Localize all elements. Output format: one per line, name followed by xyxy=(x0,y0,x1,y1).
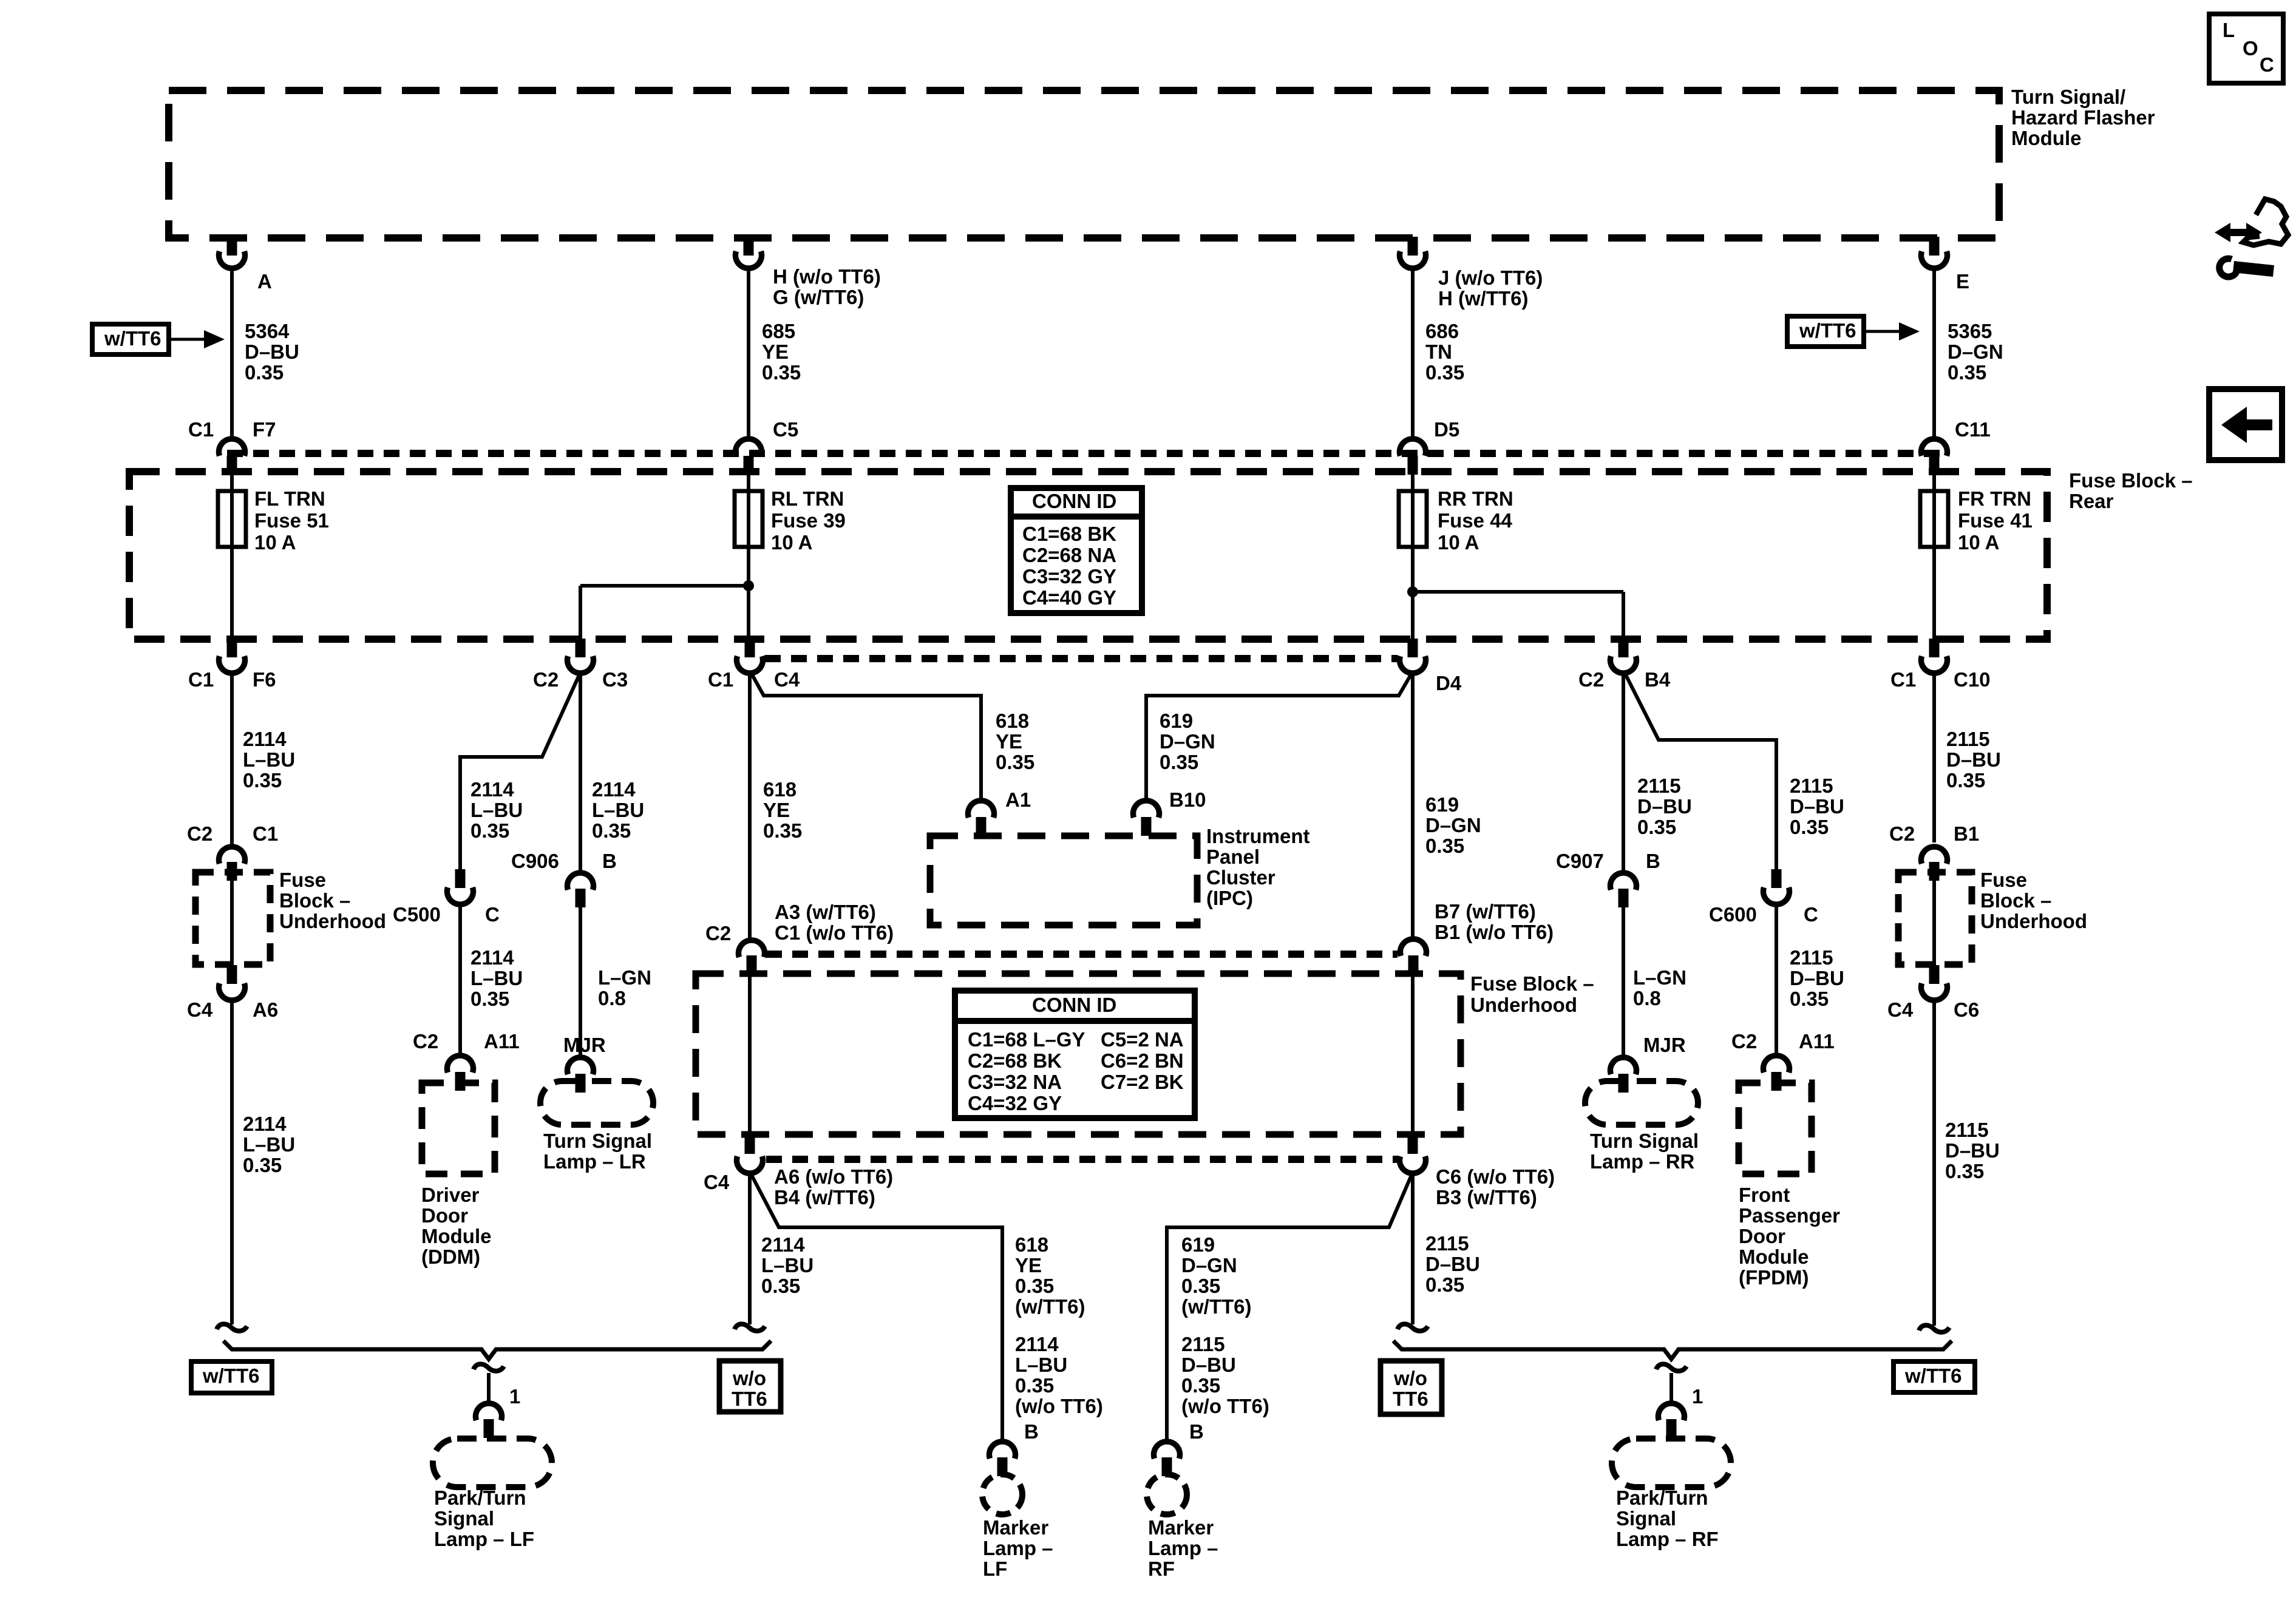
svg-text:Fuse Block –: Fuse Block – xyxy=(2069,469,2193,492)
fuse block rear box xyxy=(129,469,2193,639)
svg-text:FR TRN: FR TRN xyxy=(1958,487,2031,510)
svg-text:D–BU: D–BU xyxy=(1181,1354,1236,1376)
connector C2/A11 into DDM xyxy=(413,1030,520,1091)
svg-text:2114: 2114 xyxy=(243,1113,287,1135)
svg-text:L–BU: L–BU xyxy=(243,1133,295,1156)
svg-text:C4: C4 xyxy=(774,668,800,691)
svg-text:C1: C1 xyxy=(1890,668,1916,691)
svg-text:D–GN: D–GN xyxy=(1181,1254,1237,1276)
hand-with-wrench icon xyxy=(2215,199,2288,277)
svg-text:(w/TT6): (w/TT6) xyxy=(1181,1295,1251,1318)
svg-text:0.35: 0.35 xyxy=(1946,769,1985,792)
svg-text:1: 1 xyxy=(1692,1385,1703,1408)
svg-text:A3 (w/TT6): A3 (w/TT6) xyxy=(775,901,876,923)
svg-text:0.35: 0.35 xyxy=(1945,1160,1984,1182)
svg-text:F6: F6 xyxy=(253,668,276,691)
svg-text:C6 (w/o TT6): C6 (w/o TT6) xyxy=(1436,1165,1555,1188)
connector C1/C4 out of fuse block rear xyxy=(708,639,800,691)
svg-text:0.35: 0.35 xyxy=(1425,835,1464,857)
svg-text:619: 619 xyxy=(1181,1233,1215,1256)
svg-text:0.35: 0.35 xyxy=(1637,816,1676,838)
svg-text:L–BU: L–BU xyxy=(470,967,523,989)
svg-text:B: B xyxy=(1646,850,1660,872)
svg-text:C2: C2 xyxy=(1731,1030,1757,1053)
svg-text:A6 (w/o TT6): A6 (w/o TT6) xyxy=(774,1165,893,1188)
connector C4/C6 out of right underhood block xyxy=(1887,965,1979,1021)
svg-text:C3=32 GY: C3=32 GY xyxy=(1022,565,1116,588)
svg-text:w/TT6: w/TT6 xyxy=(1904,1364,1962,1387)
connector 1 into park/turn lamp LF xyxy=(476,1403,502,1438)
svg-text:L–BU: L–BU xyxy=(470,799,523,821)
svg-text:2114: 2114 xyxy=(470,946,514,969)
svg-text:D4: D4 xyxy=(1436,672,1462,694)
svg-text:C907: C907 xyxy=(1556,850,1604,872)
connector B into marker lamp RF xyxy=(1154,1420,1204,1476)
svg-text:D–BU: D–BU xyxy=(1946,748,2001,771)
w/TT6 arrow callout (right) xyxy=(1787,316,1920,347)
svg-text:C11: C11 xyxy=(1955,418,1991,441)
splice lead to park/turn lamp RF xyxy=(1656,1364,1703,1408)
wire through left underhood block xyxy=(230,873,234,966)
svg-text:2114: 2114 xyxy=(470,778,514,801)
wire 685 from pin H/G xyxy=(749,269,801,440)
svg-text:C: C xyxy=(485,903,500,926)
wire 2115 from C600 to FPDM xyxy=(1776,906,1844,1056)
svg-text:B: B xyxy=(1024,1420,1039,1443)
connector C2/C1 into fuse block underhood left xyxy=(187,822,278,881)
svg-text:C3: C3 xyxy=(602,668,628,691)
svg-text:2114: 2114 xyxy=(1015,1333,1059,1355)
svg-text:(w/o TT6): (w/o TT6) xyxy=(1181,1395,1269,1417)
wire 2115 D4 column lower xyxy=(1413,1175,1480,1324)
svg-text:0.35: 0.35 xyxy=(1181,1374,1220,1397)
CONN ID table (fuse block underhood) xyxy=(955,991,1195,1118)
connector MJR into turn signal lamp LR xyxy=(563,1034,606,1093)
svg-text:B3 (w/TT6): B3 (w/TT6) xyxy=(1436,1186,1537,1209)
svg-text:Marker: Marker xyxy=(1148,1516,1214,1539)
wire 619 on D4 leg xyxy=(1413,674,1481,940)
connector C2/C3 out of fuse block rear xyxy=(533,639,628,691)
wire 618 on RL leg xyxy=(750,674,802,941)
svg-text:2114: 2114 xyxy=(761,1233,805,1256)
fuse RR TRN Fuse 44 10 A xyxy=(1399,472,1513,639)
wire L-GN 0.8 to turn signal lamp RR xyxy=(1623,907,1686,1057)
svg-text:(IPC): (IPC) xyxy=(1206,887,1253,909)
svg-text:Cluster: Cluster xyxy=(1206,866,1275,889)
junction on RL TRN output xyxy=(580,580,754,591)
svg-text:Fuse 51: Fuse 51 xyxy=(254,509,329,532)
svg-text:0.35: 0.35 xyxy=(243,769,282,792)
svg-text:0.35: 0.35 xyxy=(1425,1273,1464,1296)
wire 2114 left column (F6 to underhood) xyxy=(232,674,295,847)
driver door module box xyxy=(421,1083,495,1268)
svg-text:Fuse 39: Fuse 39 xyxy=(771,509,846,532)
connector MJR into turn signal lamp RR xyxy=(1611,1034,1686,1093)
svg-text:C4=32 GY: C4=32 GY xyxy=(968,1092,1062,1114)
svg-text:B: B xyxy=(602,850,617,872)
svg-text:Module: Module xyxy=(2011,127,2081,149)
svg-text:C500: C500 xyxy=(393,903,441,926)
svg-text:B10: B10 xyxy=(1169,788,1206,811)
svg-text:10 A: 10 A xyxy=(1958,531,1999,554)
turn signal lamp LR xyxy=(540,1081,653,1173)
svg-text:Door: Door xyxy=(1739,1225,1785,1247)
svg-text:685: 685 xyxy=(762,320,795,342)
connector D5 into fuse block rear xyxy=(1400,418,1460,475)
svg-text:2115: 2115 xyxy=(1181,1333,1225,1355)
dotted IPC harness line xyxy=(765,655,1398,662)
svg-text:Marker: Marker xyxy=(983,1516,1048,1539)
svg-text:0.35: 0.35 xyxy=(245,361,284,384)
svg-text:C600: C600 xyxy=(1709,903,1757,926)
svg-text:TN: TN xyxy=(1425,341,1452,363)
splice end of center-left wire xyxy=(735,1324,765,1331)
wire from junction to C2/B4 connector xyxy=(1622,592,1625,639)
svg-text:C2: C2 xyxy=(413,1030,438,1053)
svg-text:YE: YE xyxy=(763,799,790,821)
svg-text:C4: C4 xyxy=(1887,998,1914,1021)
svg-text:C3=32 NA: C3=32 NA xyxy=(968,1071,1062,1093)
connector B7/B1 into fuse block underhood xyxy=(1401,900,1554,974)
svg-text:Lamp –: Lamp – xyxy=(1148,1537,1218,1559)
svg-text:D–GN: D–GN xyxy=(1160,730,1215,753)
fuse block underhood box (right) xyxy=(1898,869,2087,964)
svg-text:w/TT6: w/TT6 xyxy=(104,327,161,350)
svg-text:L–BU: L–BU xyxy=(243,748,295,771)
svg-text:0.35: 0.35 xyxy=(996,751,1034,773)
fuse FR TRN Fuse 41 10 A xyxy=(1920,472,2033,639)
connector B into marker lamp LF xyxy=(990,1420,1039,1476)
connector A1 into IPC xyxy=(968,788,1031,836)
svg-text:C1=68 L–GY: C1=68 L–GY xyxy=(968,1028,1085,1051)
wire 2115 on C2/B4 leg to C907 xyxy=(1623,674,1692,874)
svg-text:A11: A11 xyxy=(1799,1030,1835,1053)
connector C2/B1 into fuse block underhood right xyxy=(1889,822,1979,881)
svg-text:H (w/o TT6): H (w/o TT6) xyxy=(773,265,881,288)
svg-text:Park/Turn: Park/Turn xyxy=(1616,1486,1708,1509)
svg-text:(w/o TT6): (w/o TT6) xyxy=(1015,1395,1103,1417)
svg-text:(DDM): (DDM) xyxy=(421,1246,480,1268)
svg-text:C1 (w/o TT6): C1 (w/o TT6) xyxy=(775,921,894,944)
connector D4 out of fuse block rear xyxy=(1400,639,1462,694)
fuse RL TRN Fuse 39 10 A xyxy=(735,472,846,639)
connector C11 into fuse block rear xyxy=(1921,418,1991,475)
svg-text:0.8: 0.8 xyxy=(598,987,626,1009)
svg-text:RF: RF xyxy=(1148,1558,1175,1580)
svg-text:2115: 2115 xyxy=(1945,1119,1989,1141)
svg-text:CONN ID: CONN ID xyxy=(1032,490,1116,512)
svg-text:w/TT6: w/TT6 xyxy=(1799,319,1856,342)
park/turn signal lamp RF xyxy=(1612,1439,1731,1550)
svg-text:C5=2 NA: C5=2 NA xyxy=(1101,1028,1184,1051)
svg-text:619: 619 xyxy=(1160,710,1193,732)
svg-text:Turn Signal: Turn Signal xyxy=(1590,1130,1699,1152)
svg-text:D–GN: D–GN xyxy=(1425,814,1481,836)
connector C5 into fuse block rear xyxy=(736,418,799,475)
w/TT6 arrow callout (left) xyxy=(92,324,225,354)
svg-text:B1 (w/o TT6): B1 (w/o TT6) xyxy=(1435,921,1554,943)
svg-text:Underhood: Underhood xyxy=(1980,910,2087,932)
svg-text:E: E xyxy=(1956,270,1969,293)
svg-text:10 A: 10 A xyxy=(771,531,812,554)
svg-text:Panel: Panel xyxy=(1206,846,1260,868)
svg-text:0.35: 0.35 xyxy=(763,819,802,842)
dotted underhood harness line (lower) xyxy=(766,1156,1398,1163)
in-line connector C500/C xyxy=(393,869,500,926)
connector C1/F7 into fuse block rear xyxy=(188,418,276,475)
wire 686 from pin J/H xyxy=(1413,269,1464,440)
svg-text:0.35: 0.35 xyxy=(243,1154,282,1176)
svg-text:Fuse 44: Fuse 44 xyxy=(1438,509,1513,532)
svg-text:Lamp – RF: Lamp – RF xyxy=(1616,1528,1719,1550)
w/TT6 tag (left) xyxy=(191,1361,272,1393)
svg-text:H (w/TT6): H (w/TT6) xyxy=(1438,287,1528,310)
wire branch C2/B4 to C600 xyxy=(1625,674,1844,869)
svg-text:Turn Signal/: Turn Signal/ xyxy=(2011,86,2125,108)
svg-text:C1: C1 xyxy=(708,668,733,691)
svg-text:Passenger: Passenger xyxy=(1739,1204,1840,1227)
svg-text:YE: YE xyxy=(762,341,789,363)
svg-text:C906: C906 xyxy=(511,850,559,872)
CONN ID table (fuse block rear) xyxy=(1011,488,1142,613)
svg-text:D–BU: D–BU xyxy=(1637,795,1692,818)
svg-text:C4: C4 xyxy=(187,998,213,1021)
svg-text:(w/TT6): (w/TT6) xyxy=(1015,1295,1085,1318)
svg-text:D–BU: D–BU xyxy=(245,341,299,363)
svg-text:Fuse: Fuse xyxy=(1980,869,2027,891)
svg-text:(FPDM): (FPDM) xyxy=(1739,1266,1809,1289)
svg-text:5364: 5364 xyxy=(245,320,290,342)
svg-text:D5: D5 xyxy=(1434,418,1459,441)
svg-text:C7=2 BK: C7=2 BK xyxy=(1101,1071,1184,1093)
wire through right underhood block xyxy=(1932,873,1936,966)
fuse block underhood box (center) xyxy=(696,972,1594,1134)
svg-text:C: C xyxy=(2260,53,2274,76)
svg-text:C2=68 BK: C2=68 BK xyxy=(968,1049,1062,1072)
svg-text:D–BU: D–BU xyxy=(1790,967,1844,989)
front passenger door module box xyxy=(1739,1083,1840,1289)
svg-text:0.35: 0.35 xyxy=(761,1275,800,1297)
svg-text:0.35: 0.35 xyxy=(1790,816,1829,838)
svg-text:D–BU: D–BU xyxy=(1425,1253,1480,1275)
svg-text:Lamp –: Lamp – xyxy=(983,1537,1053,1559)
svg-text:B4: B4 xyxy=(1645,668,1671,691)
svg-text:618: 618 xyxy=(996,710,1029,732)
connector C6/B3 out of fuse block underhood xyxy=(1400,1135,1555,1209)
svg-text:D–BU: D–BU xyxy=(1945,1139,2000,1162)
svg-text:Underhood: Underhood xyxy=(1470,994,1577,1016)
pin A of flasher module xyxy=(219,237,272,293)
svg-text:A: A xyxy=(257,270,272,293)
wire 2114 center column lower + branch to marker lamp LF xyxy=(750,1175,813,1324)
splice end of center-right wire xyxy=(1398,1324,1428,1331)
svg-text:Module: Module xyxy=(1739,1246,1809,1268)
svg-text:L–GN: L–GN xyxy=(1633,966,1686,989)
svg-text:Park/Turn: Park/Turn xyxy=(434,1486,526,1509)
svg-text:MJR: MJR xyxy=(1643,1034,1686,1056)
connector C1/C10 out of fuse block rear xyxy=(1890,639,1991,691)
svg-text:L–BU: L–BU xyxy=(761,1254,813,1276)
in-line connector C600/C xyxy=(1709,869,1818,926)
svg-text:C: C xyxy=(1804,903,1818,926)
svg-text:Fuse Block –: Fuse Block – xyxy=(1470,972,1594,995)
svg-text:2114: 2114 xyxy=(592,778,636,801)
option brace (right) xyxy=(1393,1341,1952,1359)
svg-text:0.35: 0.35 xyxy=(1790,988,1829,1010)
wire 2115 right column (C10 to underhood right) xyxy=(1934,674,2001,842)
turn signal / hazard flasher module box xyxy=(169,86,2155,238)
svg-text:Lamp – LF: Lamp – LF xyxy=(434,1528,534,1550)
wire 2114 on C3 leg to C906 xyxy=(580,674,644,874)
turn signal lamp RR xyxy=(1585,1081,1699,1173)
connector C4 (A6/B4) out of fuse block underhood xyxy=(704,1135,893,1209)
svg-text:L–GN: L–GN xyxy=(598,966,651,989)
instrument panel cluster box xyxy=(930,825,1310,925)
svg-text:C2: C2 xyxy=(1889,822,1915,845)
svg-text:0.35: 0.35 xyxy=(470,819,509,842)
svg-text:O: O xyxy=(2243,37,2258,59)
svg-text:C5: C5 xyxy=(773,418,798,441)
svg-text:Door: Door xyxy=(421,1204,468,1227)
svg-text:Block –: Block – xyxy=(1980,889,2051,912)
connector C2/B4 out of fuse block rear xyxy=(1578,639,1671,691)
w/o TT6 tag (left center) xyxy=(719,1361,781,1412)
in-line connector C906/B xyxy=(511,850,617,907)
svg-text:686: 686 xyxy=(1425,320,1459,342)
svg-text:Instrument: Instrument xyxy=(1206,825,1310,847)
svg-text:C4: C4 xyxy=(704,1171,730,1193)
svg-text:C2: C2 xyxy=(533,668,559,691)
wire 5365 from pin E xyxy=(1934,269,2003,440)
wire branch C4 to IPC A1 xyxy=(752,674,1034,801)
svg-text:FL TRN: FL TRN xyxy=(254,487,325,510)
wire 2115 right column lower xyxy=(1934,1002,2000,1326)
wire branch C3 to C500 xyxy=(460,674,580,869)
arrow legend box xyxy=(2209,389,2282,460)
svg-text:A1: A1 xyxy=(1005,788,1031,811)
wire branch to marker lamp LF xyxy=(752,1175,1103,1442)
svg-text:Lamp – LR: Lamp – LR xyxy=(543,1150,646,1173)
option brace (left) xyxy=(223,1341,771,1359)
dotted harness line above fuse block rear xyxy=(227,450,1946,457)
svg-text:Signal: Signal xyxy=(1616,1507,1676,1530)
w/o TT6 tag (right center) xyxy=(1381,1361,1442,1414)
svg-text:A6: A6 xyxy=(253,998,278,1021)
svg-text:MJR: MJR xyxy=(563,1034,606,1056)
svg-text:L–BU: L–BU xyxy=(1015,1354,1067,1376)
svg-text:10 A: 10 A xyxy=(254,531,296,554)
wire branch to marker lamp RF xyxy=(1167,1175,1411,1442)
marker lamp LF xyxy=(982,1474,1053,1580)
svg-text:C6: C6 xyxy=(1954,998,1979,1021)
wire through underhood block (D4 leg) xyxy=(1411,974,1415,1135)
svg-text:J (w/o TT6): J (w/o TT6) xyxy=(1438,266,1543,289)
svg-text:0.35: 0.35 xyxy=(1015,1374,1054,1397)
svg-text:2115: 2115 xyxy=(1946,728,1990,750)
svg-text:w/o: w/o xyxy=(1393,1367,1427,1389)
svg-text:0.35: 0.35 xyxy=(762,361,801,384)
svg-text:C1=68 BK: C1=68 BK xyxy=(1022,523,1116,545)
svg-text:0.35: 0.35 xyxy=(1425,361,1464,384)
svg-text:618: 618 xyxy=(763,778,796,801)
svg-text:YE: YE xyxy=(996,730,1022,753)
in-line connector C907/B xyxy=(1556,850,1660,907)
svg-text:w/o: w/o xyxy=(732,1367,766,1389)
svg-text:G (w/TT6): G (w/TT6) xyxy=(773,286,864,308)
svg-text:C1: C1 xyxy=(188,418,214,441)
svg-text:D–GN: D–GN xyxy=(1948,341,2003,363)
svg-text:C4=40 GY: C4=40 GY xyxy=(1022,586,1116,609)
svg-text:TT6: TT6 xyxy=(1393,1388,1428,1410)
wire L-GN 0.8 to turn signal lamp LR xyxy=(580,907,651,1057)
svg-text:C10: C10 xyxy=(1954,668,1991,691)
svg-text:0.8: 0.8 xyxy=(1633,987,1661,1009)
svg-text:C2: C2 xyxy=(705,922,731,944)
svg-text:C6=2 BN: C6=2 BN xyxy=(1101,1049,1184,1072)
svg-text:w/TT6: w/TT6 xyxy=(202,1364,260,1387)
svg-text:1: 1 xyxy=(509,1385,520,1408)
svg-text:B4 (w/TT6): B4 (w/TT6) xyxy=(774,1186,875,1209)
svg-text:CONN ID: CONN ID xyxy=(1032,994,1116,1016)
svg-text:0.35: 0.35 xyxy=(592,819,631,842)
svg-text:0.35: 0.35 xyxy=(1181,1275,1220,1297)
splice lead to park/turn lamp LF xyxy=(474,1364,520,1408)
svg-text:C1: C1 xyxy=(188,668,214,691)
svg-text:2115: 2115 xyxy=(1425,1232,1469,1255)
connector 1 into park/turn lamp RF xyxy=(1659,1403,1685,1438)
svg-text:2115: 2115 xyxy=(1637,775,1681,797)
svg-text:RR TRN: RR TRN xyxy=(1438,487,1513,510)
svg-text:B: B xyxy=(1189,1420,1204,1443)
svg-text:Lamp – RR: Lamp – RR xyxy=(1590,1150,1695,1173)
wire 2114 left column lower xyxy=(232,1002,295,1324)
svg-text:Underhood: Underhood xyxy=(279,910,386,932)
svg-text:2115: 2115 xyxy=(1790,775,1833,797)
svg-text:A11: A11 xyxy=(484,1030,520,1053)
connector A3/C1 into fuse block underhood xyxy=(705,901,894,974)
wire from junction to C2/C3 connector xyxy=(579,586,582,639)
svg-text:C1: C1 xyxy=(253,822,278,845)
park/turn signal lamp LF xyxy=(433,1439,552,1550)
connector C1/F6 out of fuse block rear xyxy=(188,639,276,691)
svg-text:Block –: Block – xyxy=(279,889,350,912)
connector C4/A6 out of left underhood block xyxy=(187,965,278,1021)
svg-text:Fuse: Fuse xyxy=(279,869,326,891)
wire 5364 from pin A xyxy=(232,269,299,440)
wire branch D4 to IPC B10 xyxy=(1146,674,1411,801)
svg-text:B1: B1 xyxy=(1954,822,1979,845)
svg-text:F7: F7 xyxy=(253,418,276,441)
connector B10 into IPC xyxy=(1133,788,1206,836)
svg-text:C2: C2 xyxy=(1578,668,1604,691)
svg-text:619: 619 xyxy=(1425,793,1459,816)
svg-text:Turn Signal: Turn Signal xyxy=(543,1130,652,1152)
svg-text:L–BU: L–BU xyxy=(592,799,644,821)
svg-text:Signal: Signal xyxy=(434,1507,494,1530)
pin E of flasher module xyxy=(1921,237,1970,293)
marker lamp RF xyxy=(1147,1474,1218,1580)
svg-text:C2: C2 xyxy=(187,822,212,845)
svg-text:2115: 2115 xyxy=(1790,946,1833,969)
svg-text:0.35: 0.35 xyxy=(1160,751,1198,773)
wire through underhood block (RL leg) xyxy=(748,974,752,1135)
svg-text:5365: 5365 xyxy=(1948,320,1992,342)
svg-text:0.35: 0.35 xyxy=(470,988,509,1010)
svg-text:YE: YE xyxy=(1015,1254,1042,1276)
svg-text:Module: Module xyxy=(421,1225,491,1247)
svg-text:RL TRN: RL TRN xyxy=(771,487,844,510)
junction on RR TRN output xyxy=(1407,586,1623,597)
